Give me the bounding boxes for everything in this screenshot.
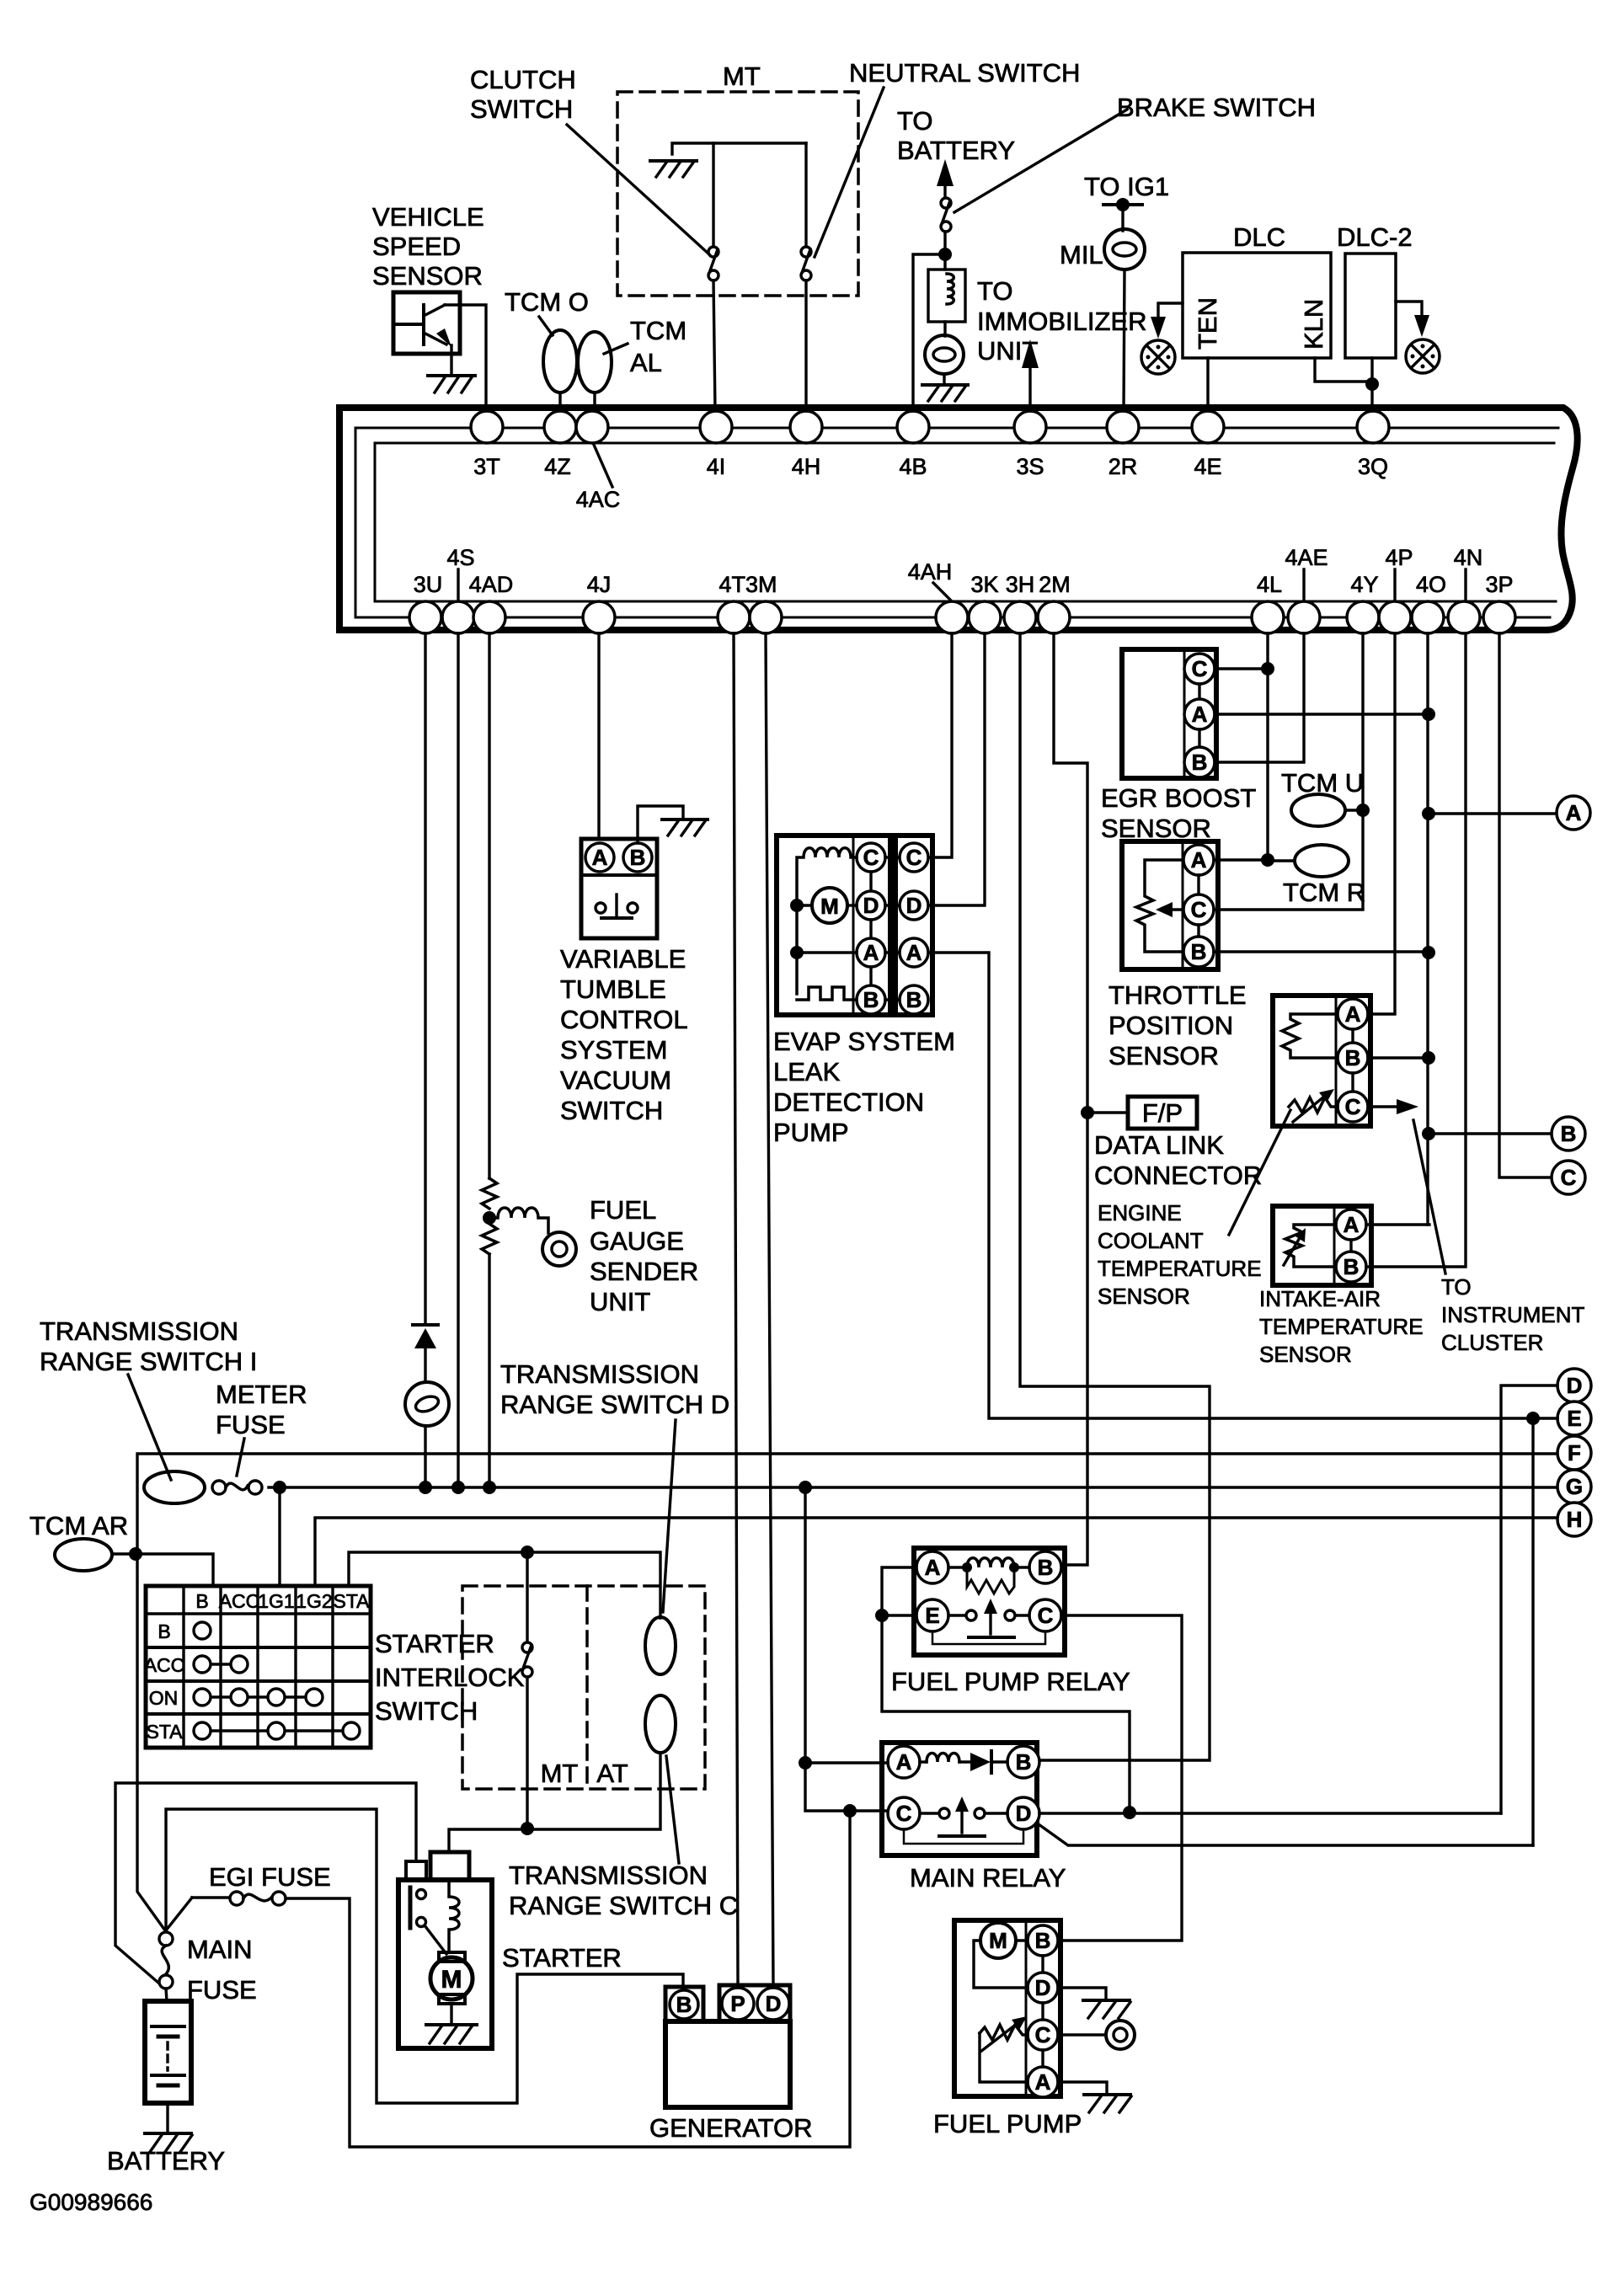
- node starter interlock tap: [521, 1546, 534, 1559]
- pin KLN label: [1299, 299, 1328, 350]
- label METER FUSE with pointer: [216, 1380, 307, 1476]
- EGI fuse feed diagonal: [166, 1898, 192, 1930]
- neutral switch: [801, 143, 811, 280]
- wire KLN to DLC-2 node: [1315, 358, 1372, 382]
- wire fuel pump relay A to E: [882, 1567, 1130, 1813]
- pin label 3H: [1006, 572, 1035, 597]
- svg-text:P: P: [730, 1991, 745, 2016]
- wire ring E branch to fuel pump net: [1531, 1418, 1534, 1845]
- label NEUTRAL SWITCH with pointer: [815, 58, 1080, 257]
- svg-text:4AH: 4AH: [908, 559, 953, 585]
- svg-text:D: D: [863, 893, 879, 918]
- label TO IMMOBILIZER UNIT: [977, 276, 1147, 366]
- wire TCM AR to ignition switch: [112, 1554, 213, 1586]
- wire intake A to 4O line: [1366, 1223, 1429, 1225]
- svg-text:A: A: [1191, 847, 1207, 873]
- EVAP pin A: [857, 920, 885, 967]
- svg-text:F: F: [1568, 1440, 1581, 1466]
- wire clutch switch to pin 4I: [713, 280, 715, 411]
- node ring E branch: [1526, 1412, 1540, 1425]
- ECU pin 3U connector circle: [409, 601, 441, 633]
- svg-text:D: D: [766, 1991, 782, 2016]
- intake pin A: [1336, 1209, 1366, 1240]
- wire coolant B to 4O line: [1368, 1056, 1429, 1059]
- intake pin B: [1336, 1240, 1366, 1282]
- svg-text:4L: 4L: [1257, 572, 1282, 597]
- wire fuel pump A to ground: [1058, 2082, 1107, 2095]
- svg-text:TCM R: TCM R: [1283, 878, 1365, 907]
- fuel pump box: [954, 1920, 1060, 2096]
- svg-text:DATA LINK: DATA LINK: [1094, 1130, 1224, 1160]
- wire sender to G-line: [424, 1426, 426, 1487]
- svg-text:FUSE: FUSE: [216, 1410, 286, 1439]
- svg-text:DETECTION: DETECTION: [773, 1087, 924, 1117]
- EVAP connector box 2: [895, 836, 932, 1015]
- coolant gauge sender variable resistor: [1289, 1089, 1338, 1122]
- svg-text:ACC: ACC: [219, 1590, 260, 1612]
- DLC test terminal arrow: [1151, 303, 1183, 339]
- ECU pin 4S connector circle: [442, 601, 474, 633]
- pin label 3U: [414, 572, 443, 597]
- wire pin 3U down: [424, 633, 426, 1324]
- ECU pin 3P connector circle: [1483, 601, 1515, 633]
- svg-text:IMMOBILIZER: IMMOBILIZER: [977, 307, 1147, 336]
- wire pin 4T to generator P: [734, 633, 738, 1985]
- label TCM U: [1281, 768, 1364, 798]
- wire starter B+ to main fuse bottom: [115, 1783, 416, 1989]
- svg-text:FUEL PUMP RELAY: FUEL PUMP RELAY: [891, 1667, 1130, 1696]
- pin TEN label: [1193, 297, 1222, 350]
- wire feed to main relay C: [805, 1763, 888, 1811]
- node fuel pump relay E junction: [875, 1609, 889, 1622]
- ground (immobilizer lamp): [922, 385, 968, 401]
- label DATA LINK CONNECTOR: [1094, 1130, 1262, 1190]
- ignition switch contact table: [146, 1586, 371, 1748]
- coolant thermistor resistor: [1282, 1014, 1336, 1058]
- ECU pin 2R connector circle: [1107, 411, 1139, 443]
- ECU pin 4H connector circle: [790, 411, 822, 443]
- node EVAP A tap: [790, 946, 804, 959]
- svg-text:4AD: 4AD: [469, 572, 514, 597]
- label MT: [723, 61, 761, 91]
- svg-text:STA: STA: [333, 1590, 370, 1612]
- svg-text:M: M: [820, 894, 839, 919]
- svg-text:A: A: [1035, 2069, 1051, 2095]
- svg-text:VACUUM: VACUUM: [560, 1065, 671, 1095]
- pin label 4H: [792, 454, 821, 479]
- wire EGR A to 4O line: [1215, 713, 1429, 715]
- brake switch: [941, 198, 951, 232]
- VTCS switch contacts: [596, 894, 638, 918]
- VTCS pin B: [623, 843, 652, 872]
- pin label 2R: [1108, 454, 1138, 479]
- wire throttle B to 4O line: [1214, 950, 1429, 953]
- EVAP2 pin D: [885, 891, 928, 920]
- fuel pump pin B: [1016, 1925, 1058, 1956]
- fuel pump relay switch: [932, 1599, 1045, 1644]
- label INTAKE-AIR TEMPERATURE SENSOR: [1259, 1286, 1424, 1367]
- ring terminal G: [1557, 1470, 1591, 1503]
- MIL lamp: [1104, 229, 1145, 270]
- wire EGR B to pin 4AE: [1215, 633, 1304, 762]
- svg-text:C: C: [1035, 2022, 1051, 2047]
- svg-text:2M: 2M: [1039, 572, 1071, 597]
- svg-text:A: A: [925, 1555, 941, 1580]
- svg-text:A: A: [1344, 1212, 1360, 1237]
- ring terminal C: [1552, 1161, 1585, 1194]
- label VARIABLE TUMBLE CONTROL SYSTEM VACUUM SWITCH: [560, 944, 688, 1125]
- label BRAKE SWITCH with pointer: [954, 93, 1316, 212]
- label TCM AR: [29, 1511, 128, 1540]
- svg-text:B: B: [1192, 750, 1208, 775]
- svg-text:B: B: [1344, 1254, 1360, 1279]
- label MT AT: [541, 1759, 628, 1788]
- svg-text:SENSOR: SENSOR: [1098, 1284, 1190, 1309]
- clutch switch: [708, 143, 719, 280]
- svg-text:A: A: [592, 845, 608, 870]
- svg-text:C: C: [1192, 656, 1208, 681]
- svg-text:VEHICLE: VEHICLE: [372, 202, 484, 232]
- svg-text:SYSTEM: SYSTEM: [560, 1035, 667, 1065]
- svg-text:TCM: TCM: [630, 316, 686, 345]
- svg-text:D: D: [1016, 1801, 1032, 1826]
- intake thermistor resistor: [1284, 1225, 1334, 1267]
- svg-text:B: B: [1035, 1928, 1051, 1953]
- label MAIN FUSE: [187, 1935, 257, 2005]
- EVAP2 pin B: [885, 985, 928, 1014]
- ECU inner border line 1: [355, 428, 1558, 617]
- DLC-2 test terminal arrow: [1396, 302, 1429, 337]
- wire pin 3M to generator D: [766, 633, 773, 1985]
- ground (VTCS): [662, 820, 708, 836]
- svg-text:GENERATOR: GENERATOR: [649, 2113, 813, 2143]
- EVAP pump box: [777, 836, 890, 1015]
- ring terminal F: [1557, 1436, 1591, 1470]
- svg-text:INSTRUMENT: INSTRUMENT: [1441, 1302, 1585, 1327]
- svg-text:M: M: [989, 1928, 1007, 1953]
- svg-text:4P: 4P: [1385, 545, 1413, 570]
- label DLC-2: [1337, 222, 1413, 252]
- svg-text:4T3M: 4T3M: [719, 572, 777, 597]
- svg-text:B: B: [1191, 939, 1207, 964]
- svg-text:E: E: [1567, 1406, 1581, 1431]
- coil L1 (fuel gauge sender): [489, 1208, 548, 1233]
- pin label 2M: [1039, 572, 1071, 597]
- wire G: meter fuse line to ring G: [269, 1486, 1558, 1488]
- throttle potentiometer resistor: [1136, 860, 1183, 952]
- wire fuel pump relay C to fuel pump B: [1060, 1615, 1182, 1941]
- wire TEN to pin 4E: [1206, 358, 1209, 411]
- svg-text:CONTROL: CONTROL: [560, 1005, 688, 1034]
- node battery/immobilizer junction: [938, 248, 952, 261]
- ECU pin 4I connector circle: [700, 411, 732, 443]
- table contacts row ACC: [194, 1656, 248, 1673]
- table contacts row B: [194, 1622, 211, 1639]
- svg-text:CONNECTOR: CONNECTOR: [1094, 1161, 1262, 1190]
- wire throttle A to node: [1214, 858, 1268, 861]
- pin label 4AC with pointer: [576, 445, 621, 512]
- wire coolant A to pin 4P: [1368, 633, 1395, 1014]
- svg-text:B: B: [630, 845, 646, 870]
- svg-text:RANGE SWITCH D: RANGE SWITCH D: [500, 1390, 729, 1419]
- coolant pin C: [1338, 1073, 1368, 1122]
- ECU pin 2M connector circle: [1038, 601, 1070, 633]
- pin label 4S with pointer: [446, 545, 474, 600]
- pin label 4P with pointer: [1385, 545, 1413, 600]
- svg-text:AT: AT: [596, 1759, 628, 1788]
- starter box: [398, 1880, 492, 2048]
- label THROTTLE POSITION SENSOR: [1108, 980, 1247, 1070]
- wire node to pin 4B: [913, 254, 945, 411]
- svg-text:MT: MT: [723, 61, 761, 91]
- EGR boost sensor box: [1122, 649, 1216, 778]
- node main relay D / feed junction: [1123, 1806, 1136, 1819]
- starter brushes and contacts: [410, 1887, 446, 1954]
- svg-text:PUMP: PUMP: [773, 1118, 849, 1147]
- wire pin 4AD down: [488, 633, 490, 1178]
- svg-text:3S: 3S: [1016, 454, 1044, 479]
- wire main relay D to ring D line: [1039, 1812, 1501, 1814]
- resistor R2 on 4AD line: [482, 1224, 497, 1254]
- DLC-2 connector box: [1345, 254, 1396, 358]
- EVAP motor M: [797, 888, 857, 923]
- ECU pin 4AH connector circle: [936, 601, 968, 633]
- label TCM AL with pointer: [604, 316, 686, 377]
- connector TCM AL oval: [578, 332, 612, 411]
- node F/P tap on 2M line: [1081, 1106, 1094, 1119]
- node EVAP motor tap: [790, 899, 804, 912]
- svg-text:TEN: TEN: [1193, 297, 1222, 350]
- label STARTER INTERLOCK SWITCH: [375, 1629, 525, 1726]
- fuel pump pin D: [1028, 1956, 1058, 2003]
- table header labels B ACC 1G1 1G2 STA: [195, 1590, 370, 1612]
- wire H: 1G2 line to ring H: [315, 1518, 1558, 1586]
- resistor R1 on 4AD line: [482, 1178, 497, 1209]
- svg-text:BATTERY: BATTERY: [107, 2146, 225, 2176]
- svg-text:TO IG1: TO IG1: [1084, 172, 1169, 201]
- svg-text:A: A: [1345, 1001, 1361, 1027]
- svg-text:ACC: ACC: [144, 1654, 185, 1676]
- svg-text:A: A: [896, 1749, 912, 1775]
- svg-text:SWITCH: SWITCH: [470, 94, 573, 124]
- fuel pump relay pin E: [916, 1599, 948, 1631]
- pin label 4O: [1416, 572, 1446, 597]
- node fuel gauge tap: [483, 1211, 496, 1225]
- svg-text:4H: 4H: [792, 454, 821, 479]
- starter B+ terminal: [406, 1861, 426, 1880]
- node solenoid junction: [521, 1822, 534, 1835]
- wire neutral switch to pin 4H: [804, 280, 807, 411]
- svg-text:SENSOR: SENSOR: [372, 261, 483, 291]
- EVAP internal coil: [797, 848, 857, 994]
- immobilizer coil box: [928, 270, 965, 322]
- variable tumble control system vacuum switch box: [581, 839, 657, 938]
- ground (fuel pump D): [1083, 2000, 1130, 2018]
- ECU pin 4J connector circle: [583, 601, 615, 633]
- label TRANSMISSION RANGE SWITCH C with pointer: [509, 1756, 738, 1920]
- svg-text:TO: TO: [897, 106, 933, 136]
- svg-text:TUMBLE: TUMBLE: [560, 974, 666, 1004]
- ECU pin 3K connector circle: [969, 601, 1001, 633]
- svg-text:C: C: [906, 845, 922, 870]
- ECU pin 4AE connector circle: [1288, 601, 1320, 633]
- svg-text:TRANSMISSION: TRANSMISSION: [500, 1359, 699, 1389]
- diode D1 on 3U line: [413, 1325, 438, 1348]
- ring terminal E: [1557, 1401, 1591, 1435]
- svg-text:BATTERY: BATTERY: [897, 136, 1015, 165]
- wire MIL to pin 2R: [1124, 270, 1125, 411]
- label GENERATOR: [649, 2113, 813, 2143]
- pin label 4Z: [544, 454, 571, 479]
- svg-text:C: C: [863, 845, 879, 870]
- node G-line junction x=956: [799, 1481, 812, 1494]
- sensor symbol (circle with oval) on 3U line: [405, 1382, 449, 1426]
- svg-text:C: C: [896, 1801, 912, 1826]
- EGR pin C: [1184, 654, 1215, 684]
- ECU pin 4Y connector circle: [1347, 601, 1379, 633]
- security indicator lamp: [925, 335, 964, 374]
- svg-text:TCM U: TCM U: [1281, 768, 1364, 798]
- ECU pin 4T connector circle: [718, 601, 750, 633]
- svg-text:FUEL PUMP: FUEL PUMP: [933, 2109, 1082, 2138]
- svg-text:METER: METER: [216, 1380, 307, 1409]
- transmission range switch I oval: [144, 1471, 205, 1503]
- table row labels B ACC ON STA: [144, 1620, 185, 1743]
- ECU pin 3S connector circle: [1014, 411, 1046, 443]
- ECU pin 4N connector circle: [1448, 601, 1480, 633]
- svg-text:KLN: KLN: [1299, 299, 1328, 350]
- pin label 3S: [1016, 454, 1044, 479]
- fuel pump relay resistor: [967, 1567, 1014, 1594]
- pin label 3K: [970, 572, 998, 597]
- svg-text:4N: 4N: [1454, 545, 1483, 570]
- wire diode to sender symbol: [424, 1348, 426, 1382]
- arrow to battery: [937, 159, 954, 197]
- wire intake B to pin 4N: [1366, 633, 1466, 1267]
- label EGI FUSE: [209, 1862, 331, 1892]
- wire 4O node to ring A: [1429, 812, 1557, 814]
- svg-text:4S: 4S: [446, 545, 474, 570]
- meter fuse: [212, 1481, 262, 1494]
- svg-text:TCM AR: TCM AR: [29, 1511, 128, 1540]
- label TO INSTRUMENT CLUSTER: [1441, 1274, 1585, 1355]
- pin label 3Q: [1358, 454, 1388, 479]
- svg-text:3T: 3T: [473, 454, 500, 479]
- coolant C arrow to instrument cluster: [1368, 1099, 1418, 1114]
- pin label 4L: [1257, 572, 1282, 597]
- MT/AT dashed box: [462, 1586, 705, 1789]
- DLC-2 test terminal symbol: [1406, 339, 1440, 373]
- label MAIN RELAY: [910, 1863, 1066, 1893]
- pin label 3T: [473, 454, 500, 479]
- F/P data link connector box: [1128, 1097, 1197, 1129]
- wire EVAP D to pin 3K: [929, 633, 985, 905]
- fuel pump relay coil: [948, 1558, 1029, 1572]
- wire brake switch to node: [943, 232, 946, 270]
- svg-text:H: H: [1567, 1507, 1583, 1532]
- svg-text:EVAP SYSTEM: EVAP SYSTEM: [773, 1027, 955, 1056]
- main relay pin B: [1007, 1746, 1039, 1778]
- svg-text:NEUTRAL SWITCH: NEUTRAL SWITCH: [849, 58, 1080, 88]
- ground (battery): [145, 2133, 192, 2152]
- DLC connector box: [1183, 253, 1331, 358]
- wire ring D to main relay D: [1501, 1385, 1557, 1813]
- svg-text:4AE: 4AE: [1285, 545, 1328, 570]
- connector TCM U oval: [1291, 794, 1363, 826]
- wire interlock switch to solenoid node: [526, 1677, 528, 1829]
- label BATTERY: [107, 2146, 225, 2176]
- main fuse: [159, 1932, 173, 1989]
- wire EVAP A to ring E: [929, 953, 1557, 1418]
- EVAP pin C: [857, 843, 885, 872]
- ECU pin 4B connector circle: [897, 411, 929, 443]
- ECU pin 4P connector circle: [1379, 601, 1411, 633]
- svg-text:3K: 3K: [970, 572, 998, 597]
- wire EVAP A internal: [797, 951, 857, 953]
- fuel level sender variable resistor: [980, 2016, 1028, 2082]
- pointer to TO INSTRUMENT CLUSTER: [1413, 1120, 1445, 1273]
- ECU pin 3H connector circle: [1004, 601, 1036, 633]
- svg-text:TCM O: TCM O: [505, 287, 589, 317]
- wire motor to ground: [450, 2004, 452, 2025]
- ECU pin 3M connector circle: [750, 601, 782, 633]
- fuel pump relay pin C: [1029, 1599, 1061, 1631]
- svg-text:SPEED: SPEED: [372, 232, 461, 261]
- svg-text:TRANSMISSION: TRANSMISSION: [40, 1316, 238, 1346]
- svg-text:TEMPERATURE: TEMPERATURE: [1098, 1256, 1262, 1281]
- pin label 4AD: [469, 572, 514, 597]
- svg-text:SENSOR: SENSOR: [1101, 814, 1211, 843]
- wire node to F/P box: [1087, 1111, 1128, 1113]
- label TCM O with pointer: [505, 287, 589, 335]
- EVAP pulse signal symbol: [797, 987, 857, 1000]
- ECU pin 4AC connector circle: [576, 411, 608, 443]
- svg-text:4Z: 4Z: [544, 454, 571, 479]
- wire pin 4L down: [1266, 633, 1269, 860]
- svg-text:A: A: [1566, 800, 1582, 825]
- main relay pin D: [1007, 1797, 1039, 1829]
- label TRANSMISSION RANGE SWITCH D with pointer: [500, 1359, 729, 1612]
- svg-text:EGR BOOST: EGR BOOST: [1101, 783, 1256, 813]
- engine coolant temperature sensor box: [1273, 996, 1370, 1126]
- EVAP2 pin C: [885, 843, 928, 872]
- node 4O / ring A: [1422, 807, 1435, 820]
- wire EGR C to 4L line: [1215, 667, 1268, 670]
- starter solenoid terminal: [430, 1852, 469, 1880]
- svg-text:SENDER: SENDER: [590, 1257, 698, 1286]
- label DLC: [1233, 222, 1285, 252]
- svg-text:MAIN RELAY: MAIN RELAY: [910, 1863, 1066, 1893]
- connector TCM AR oval: [55, 1539, 112, 1571]
- EVAP pin D: [857, 872, 885, 920]
- connector TCM R oval: [1268, 845, 1349, 877]
- node TCM U / 4Y: [1356, 803, 1370, 817]
- svg-text:B: B: [1016, 1749, 1032, 1775]
- coolant pin A: [1338, 999, 1368, 1029]
- label CLUTCH SWITCH with pointer: [470, 65, 709, 254]
- generator box: [665, 2021, 790, 2107]
- MT dashed box: [617, 92, 858, 296]
- wire main fuse to battery: [166, 1989, 167, 2001]
- wire VTCS B to ground: [638, 806, 683, 842]
- fuel pump motor return wire: [974, 1941, 1028, 1988]
- wire switch common bar: [672, 143, 806, 154]
- fuel pump check connector symbol: [1106, 2021, 1135, 2049]
- svg-text:SENSOR: SENSOR: [1108, 1041, 1219, 1070]
- svg-text:B: B: [676, 1992, 692, 2017]
- svg-text:UNIT: UNIT: [590, 1287, 650, 1316]
- svg-text:MAIN: MAIN: [187, 1935, 253, 1964]
